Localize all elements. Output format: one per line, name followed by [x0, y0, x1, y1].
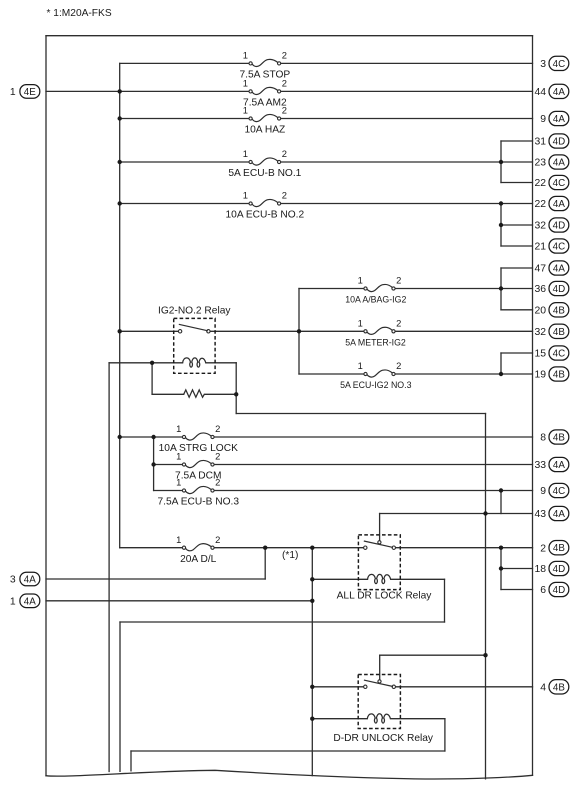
- svg-text:4C: 4C: [553, 242, 566, 253]
- svg-text:4C: 4C: [553, 486, 566, 497]
- svg-text:18: 18: [534, 564, 546, 575]
- svg-text:4D: 4D: [553, 585, 566, 596]
- svg-text:20A D/L: 20A D/L: [180, 554, 217, 565]
- svg-text:2: 2: [282, 105, 287, 116]
- svg-text:2: 2: [215, 423, 220, 434]
- svg-text:D-DR UNLOCK Relay: D-DR UNLOCK Relay: [333, 733, 434, 744]
- svg-text:44: 44: [534, 87, 546, 98]
- svg-text:2: 2: [282, 148, 287, 159]
- svg-text:4A: 4A: [553, 264, 565, 275]
- svg-text:32: 32: [534, 327, 546, 338]
- svg-text:4D: 4D: [553, 564, 566, 575]
- svg-text:20: 20: [534, 306, 546, 317]
- svg-text:3: 3: [540, 59, 546, 70]
- svg-text:(*1): (*1): [282, 550, 298, 561]
- svg-text:2: 2: [215, 477, 220, 488]
- svg-text:1: 1: [10, 597, 16, 608]
- svg-text:4A: 4A: [24, 575, 36, 586]
- svg-text:9: 9: [540, 486, 546, 497]
- svg-text:4E: 4E: [24, 87, 36, 98]
- svg-text:6: 6: [540, 585, 546, 596]
- svg-text:4D: 4D: [553, 221, 566, 232]
- svg-text:4B: 4B: [553, 682, 565, 693]
- svg-text:4A: 4A: [553, 199, 565, 210]
- svg-text:32: 32: [534, 221, 546, 232]
- svg-text:4B: 4B: [553, 543, 565, 554]
- svg-text:4A: 4A: [553, 460, 565, 471]
- svg-text:4A: 4A: [24, 596, 36, 607]
- svg-text:4A: 4A: [553, 87, 565, 98]
- svg-text:1: 1: [243, 190, 248, 201]
- svg-text:10A A/BAG-IG2: 10A A/BAG-IG2: [345, 295, 406, 305]
- svg-text:21: 21: [534, 242, 546, 253]
- svg-text:1: 1: [358, 275, 363, 286]
- svg-text:7.5A ECU-B NO.3: 7.5A ECU-B NO.3: [157, 497, 239, 508]
- svg-text:4D: 4D: [553, 284, 566, 295]
- svg-text:33: 33: [534, 460, 546, 471]
- svg-text:9: 9: [540, 114, 546, 125]
- svg-text:1: 1: [176, 451, 181, 462]
- svg-text:7.5A AM2: 7.5A AM2: [243, 98, 287, 109]
- svg-text:4C: 4C: [553, 59, 566, 70]
- svg-text:2: 2: [282, 50, 287, 61]
- svg-text:2: 2: [215, 534, 220, 545]
- svg-text:5A ECU-B NO.1: 5A ECU-B NO.1: [228, 168, 301, 179]
- svg-text:4: 4: [540, 683, 546, 694]
- svg-text:4A: 4A: [553, 158, 565, 169]
- svg-text:2: 2: [282, 190, 287, 201]
- svg-text:2: 2: [396, 360, 401, 371]
- svg-text:1: 1: [176, 477, 181, 488]
- svg-text:1: 1: [243, 148, 248, 159]
- svg-text:19: 19: [534, 370, 546, 381]
- svg-text:4D: 4D: [553, 137, 566, 148]
- svg-text:47: 47: [534, 264, 546, 275]
- svg-text:4C: 4C: [553, 349, 566, 360]
- svg-text:36: 36: [534, 284, 546, 295]
- svg-text:IG2-NO.2 Relay: IG2-NO.2 Relay: [158, 306, 231, 317]
- svg-text:22: 22: [534, 178, 546, 189]
- svg-text:5A ECU-IG2 NO.3: 5A ECU-IG2 NO.3: [340, 380, 411, 390]
- svg-text:8: 8: [540, 433, 546, 444]
- svg-text:2: 2: [215, 451, 220, 462]
- svg-text:4B: 4B: [553, 370, 565, 381]
- svg-text:4B: 4B: [553, 305, 565, 316]
- svg-text:* 1:M20A-FKS: * 1:M20A-FKS: [47, 8, 112, 19]
- svg-text:1: 1: [358, 318, 363, 329]
- svg-text:1: 1: [243, 78, 248, 89]
- svg-text:1: 1: [176, 534, 181, 545]
- svg-text:4B: 4B: [553, 433, 565, 444]
- svg-text:22: 22: [534, 199, 546, 210]
- svg-text:31: 31: [534, 137, 546, 148]
- svg-text:2: 2: [396, 275, 401, 286]
- svg-text:5A METER-IG2: 5A METER-IG2: [345, 338, 406, 348]
- svg-text:15: 15: [534, 349, 546, 360]
- svg-text:1: 1: [243, 50, 248, 61]
- svg-text:2: 2: [396, 318, 401, 329]
- svg-text:10A ECU-B NO.2: 10A ECU-B NO.2: [225, 210, 304, 221]
- svg-text:4C: 4C: [553, 178, 566, 189]
- svg-text:ALL DR LOCK Relay: ALL DR LOCK Relay: [337, 591, 433, 602]
- svg-text:4A: 4A: [553, 509, 565, 520]
- svg-text:4A: 4A: [553, 114, 565, 125]
- svg-text:10A STRG LOCK: 10A STRG LOCK: [159, 443, 238, 454]
- svg-text:43: 43: [534, 509, 546, 520]
- svg-text:1: 1: [243, 105, 248, 116]
- svg-text:2: 2: [540, 543, 546, 554]
- svg-text:3: 3: [10, 575, 16, 586]
- svg-text:10A HAZ: 10A HAZ: [244, 125, 285, 136]
- svg-text:1: 1: [176, 423, 181, 434]
- svg-text:1: 1: [10, 87, 16, 98]
- svg-text:23: 23: [534, 158, 546, 169]
- svg-text:1: 1: [358, 360, 363, 371]
- svg-text:4B: 4B: [553, 327, 565, 338]
- svg-text:2: 2: [282, 78, 287, 89]
